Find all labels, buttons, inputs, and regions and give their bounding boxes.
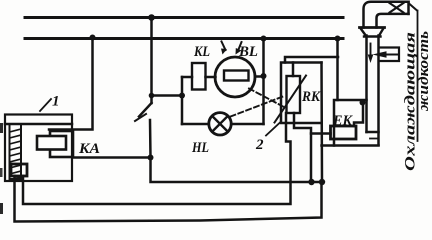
- RK diagonal arrow: [275, 76, 307, 123]
- elbow end cap: [407, 2, 410, 14]
- label: cooling liquid (rotated): [403, 31, 432, 171]
- lamp HL (circle with cross): [209, 113, 231, 135]
- node junction under switch: [148, 155, 154, 161]
- elbow pipe outer: [364, 2, 409, 28]
- flow arrow in branch: [385, 54, 397, 56]
- wire: EK right lead up: [354, 102, 363, 127]
- wire: lamp loop bottom: [182, 123, 209, 126]
- dashed link HL to RK: [231, 97, 284, 117]
- wire: heater winding to bottom wire A: [23, 113, 291, 204]
- contact KL (switch blade): [139, 103, 152, 117]
- relay coil KL: [192, 63, 206, 90]
- label 1 pointer: [40, 99, 51, 111]
- gauge BL (circle): [215, 57, 255, 97]
- bus L1 (top supply wire): [25, 16, 343, 19]
- bimetal hatch: [10, 129, 22, 180]
- contact KL tick: [135, 114, 146, 121]
- wire: RK right edge down to dot2: [320, 63, 323, 183]
- dashed arrow onto BL (right stroke): [239, 42, 242, 50]
- resistor RK: [287, 76, 301, 113]
- jacket bottom edge: [322, 144, 379, 147]
- wire: KA contact to junction: [73, 156, 151, 159]
- svg-text:RK: RK: [301, 89, 321, 105]
- node dot1 (EK return): [308, 179, 314, 185]
- contact rect front: [37, 136, 66, 150]
- heater EK: [331, 126, 357, 139]
- elbow end tail: [409, 4, 417, 11]
- node at switch top: [149, 93, 155, 99]
- node: junction on bus L1: [148, 14, 155, 21]
- wire: below contact down to junction: [149, 120, 152, 158]
- svg-text:EK: EK: [332, 113, 353, 129]
- wire: vertical BL to bus L2 and down to lamp: [262, 39, 265, 125]
- node BL right: [261, 73, 267, 79]
- resistor inside BL: [224, 71, 249, 81]
- unit 1 box (thermal relay KA housing): [5, 115, 72, 182]
- node on bus L2 at x=92: [90, 35, 96, 41]
- wire: lamp to right vertical: [231, 123, 263, 126]
- bimetal strip: [10, 124, 22, 179]
- wire: left side of KL/HL loop: [181, 77, 184, 124]
- sensor RK box: [281, 63, 322, 124]
- dashed arrow onto BL (left stroke): [222, 42, 226, 51]
- jacket box around EK: [334, 100, 367, 146]
- side branch pipe: [380, 48, 399, 62]
- wire: contact to KL-loop junction: [152, 94, 183, 97]
- wire: BL right lead: [255, 75, 264, 78]
- wire: EK left lead: [311, 132, 331, 135]
- contact rect rear: [50, 131, 73, 157]
- svg-text:HL: HL: [191, 140, 209, 156]
- wire: RK bottom stub jog to riser: [294, 113, 311, 182]
- funnel flange: [360, 26, 385, 29]
- scan artifact marks left edge: [0, 123, 3, 133]
- node dot2 (RK return): [319, 179, 325, 185]
- wire: drop from bus L2 to unit 1: [49, 39, 93, 130]
- dashed link BL to RK: [249, 89, 283, 107]
- svg-text:1: 1: [52, 94, 60, 110]
- label 2 pointer: [266, 123, 280, 136]
- wire: KL coil to gauge BL: [206, 76, 216, 79]
- node at KL loop left: [179, 93, 185, 99]
- pipe left wall: [365, 36, 368, 133]
- valve X: [390, 3, 404, 13]
- elbow pipe inner: [377, 14, 409, 28]
- svg-text:KL: KL: [193, 44, 210, 60]
- flow arrow in pipe: [370, 44, 372, 56]
- wire: junction down and right to sensor dots: [151, 158, 323, 183]
- wire: RK top lead over to heater feed: [285, 57, 338, 63]
- pipe right wall: [377, 36, 380, 146]
- node on bus L2 at x=337: [335, 36, 341, 42]
- svg-text:2: 2: [255, 137, 264, 153]
- funnel body: [361, 29, 383, 37]
- underline of label: [417, 11, 419, 142]
- wire: KL coil left lead: [182, 76, 192, 79]
- svg-text:KA: KA: [78, 141, 100, 157]
- node EK feed: [360, 100, 366, 106]
- wire: heater winding to bottom wire B: [15, 176, 322, 222]
- bus L2 (second supply wire): [25, 37, 343, 40]
- unit 1 inner top line: [5, 123, 72, 126]
- RK top stub: [292, 63, 295, 77]
- wire: vertical from bus L1 down to contact: [150, 21, 153, 103]
- wire: bus L2 down to jacket: [336, 39, 339, 101]
- pipe open end inside jacket: [367, 131, 379, 134]
- node on bus L2 at x=263: [261, 36, 267, 42]
- svg-text:BL: BL: [238, 44, 258, 60]
- heater winding rect: [11, 164, 27, 176]
